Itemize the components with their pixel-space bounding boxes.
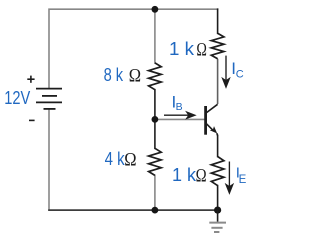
svg-text:Ω: Ω bbox=[124, 150, 136, 170]
svg-text:Ω: Ω bbox=[196, 40, 207, 60]
svg-text:E: E bbox=[239, 174, 247, 186]
svg-text:12V: 12V bbox=[4, 87, 31, 108]
svg-text:1 k: 1 k bbox=[169, 39, 195, 59]
svg-text:Ω: Ω bbox=[129, 66, 141, 86]
svg-text:B: B bbox=[176, 101, 183, 113]
svg-text:8 k: 8 k bbox=[104, 65, 124, 85]
svg-text:Ω: Ω bbox=[196, 166, 207, 186]
svg-text:1 k: 1 k bbox=[172, 165, 197, 185]
svg-text:C: C bbox=[236, 68, 244, 80]
svg-text:4 k: 4 k bbox=[105, 149, 126, 169]
